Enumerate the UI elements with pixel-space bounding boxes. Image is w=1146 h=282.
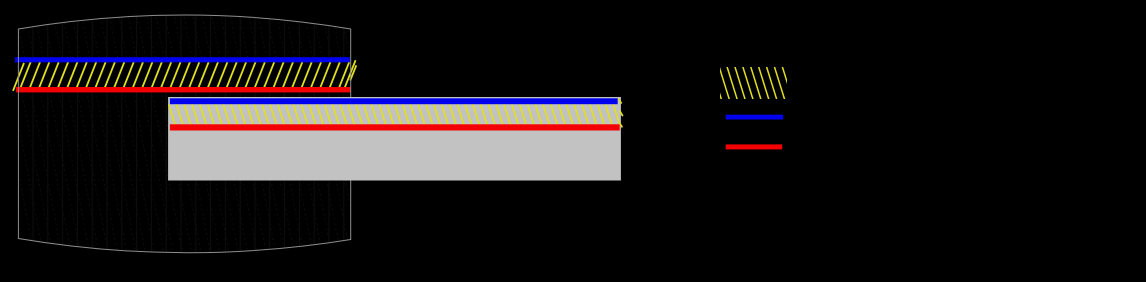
blue membrane bar (close-up panel) <box>170 98 618 104</box>
roof deck interior texture: faint diagonal hatch <box>0 12 387 254</box>
blue membrane bar (roof deck) <box>15 57 350 62</box>
red membrane bar (close-up panel) <box>170 124 620 130</box>
roof deck interior texture: faint vertical staves <box>33 14 344 254</box>
yellow hatched underlayment band (close-up panel) <box>169 104 620 125</box>
roof deck outline (barrel shape) <box>18 15 350 253</box>
hatch overflow strokes (roof deck band ends) <box>13 60 356 91</box>
legend red line <box>726 144 783 149</box>
gray close-up panel <box>168 97 621 181</box>
yellow hatched underlayment band (roof deck) <box>21 62 350 88</box>
black fill of underlayment band (roof deck) <box>15 62 351 87</box>
legend hatch swatch <box>711 66 793 100</box>
legend blue line <box>726 115 784 120</box>
red membrane bar (roof deck) <box>16 87 351 92</box>
hatch overflow strokes (close-up panel right edge) <box>618 98 623 127</box>
